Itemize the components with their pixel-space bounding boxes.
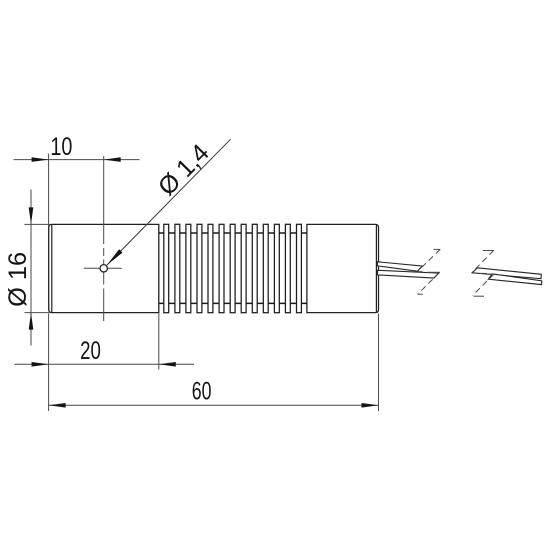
hole circle: [100, 265, 107, 272]
dimension 20 left arrow: [32, 362, 49, 367]
break mark D: [473, 274, 494, 296]
svg-text:Ø 16: Ø 16: [4, 252, 32, 307]
break mark A: [417, 249, 440, 271]
wire 1 segment right: [472, 268, 541, 279]
dimension D16 bottom extension line: [25, 312, 51, 314]
dimension D16 top extension line: [25, 223, 51, 225]
dimension 20 right arrow: [159, 362, 176, 367]
dimension 60 left arrow: [49, 403, 66, 408]
front cap tangent line: [51, 224, 53, 312]
hole horizontal centerline: [84, 267, 122, 269]
dimension D16 top arrow: [29, 207, 34, 224]
dimension 10 extension line at body left: [48, 154, 50, 226]
hole vertical centerline: [103, 156, 105, 244]
dimension D16 bottom arrow: [29, 313, 34, 330]
dimension 60 right arrow: [362, 403, 379, 408]
leader arrow: [107, 249, 123, 265]
dimension 60 line: [49, 404, 379, 406]
wire 2 segment at body: [378, 270, 439, 278]
break mark C: [472, 251, 494, 274]
core lines between fins: [159, 232, 307, 234]
cooling fins: [164, 224, 302, 312]
dimension 10 left arrow: [32, 157, 49, 162]
leader line for hole diameter: [107, 139, 231, 265]
dimension D16 line: [30, 190, 32, 346]
break mark B: [418, 272, 440, 294]
wire 2 segment right: [488, 274, 542, 285]
svg-text:10: 10: [50, 133, 72, 161]
dimension 20 right extension line: [158, 314, 160, 370]
dimension 20 left extension line: [48, 314, 50, 412]
svg-text:60: 60: [192, 378, 212, 406]
dimension 20 line: [14, 363, 194, 365]
rear section outline: [307, 224, 379, 312]
wire 1 segment at body: [378, 262, 423, 271]
rear cap tangent line: [375, 224, 377, 312]
svg-text:20: 20: [80, 337, 101, 365]
dimension 10 line: [14, 159, 140, 161]
dimension 60 right extension line: [378, 314, 380, 412]
dimension 10 right arrow: [104, 157, 121, 162]
front section outline: [49, 224, 159, 312]
